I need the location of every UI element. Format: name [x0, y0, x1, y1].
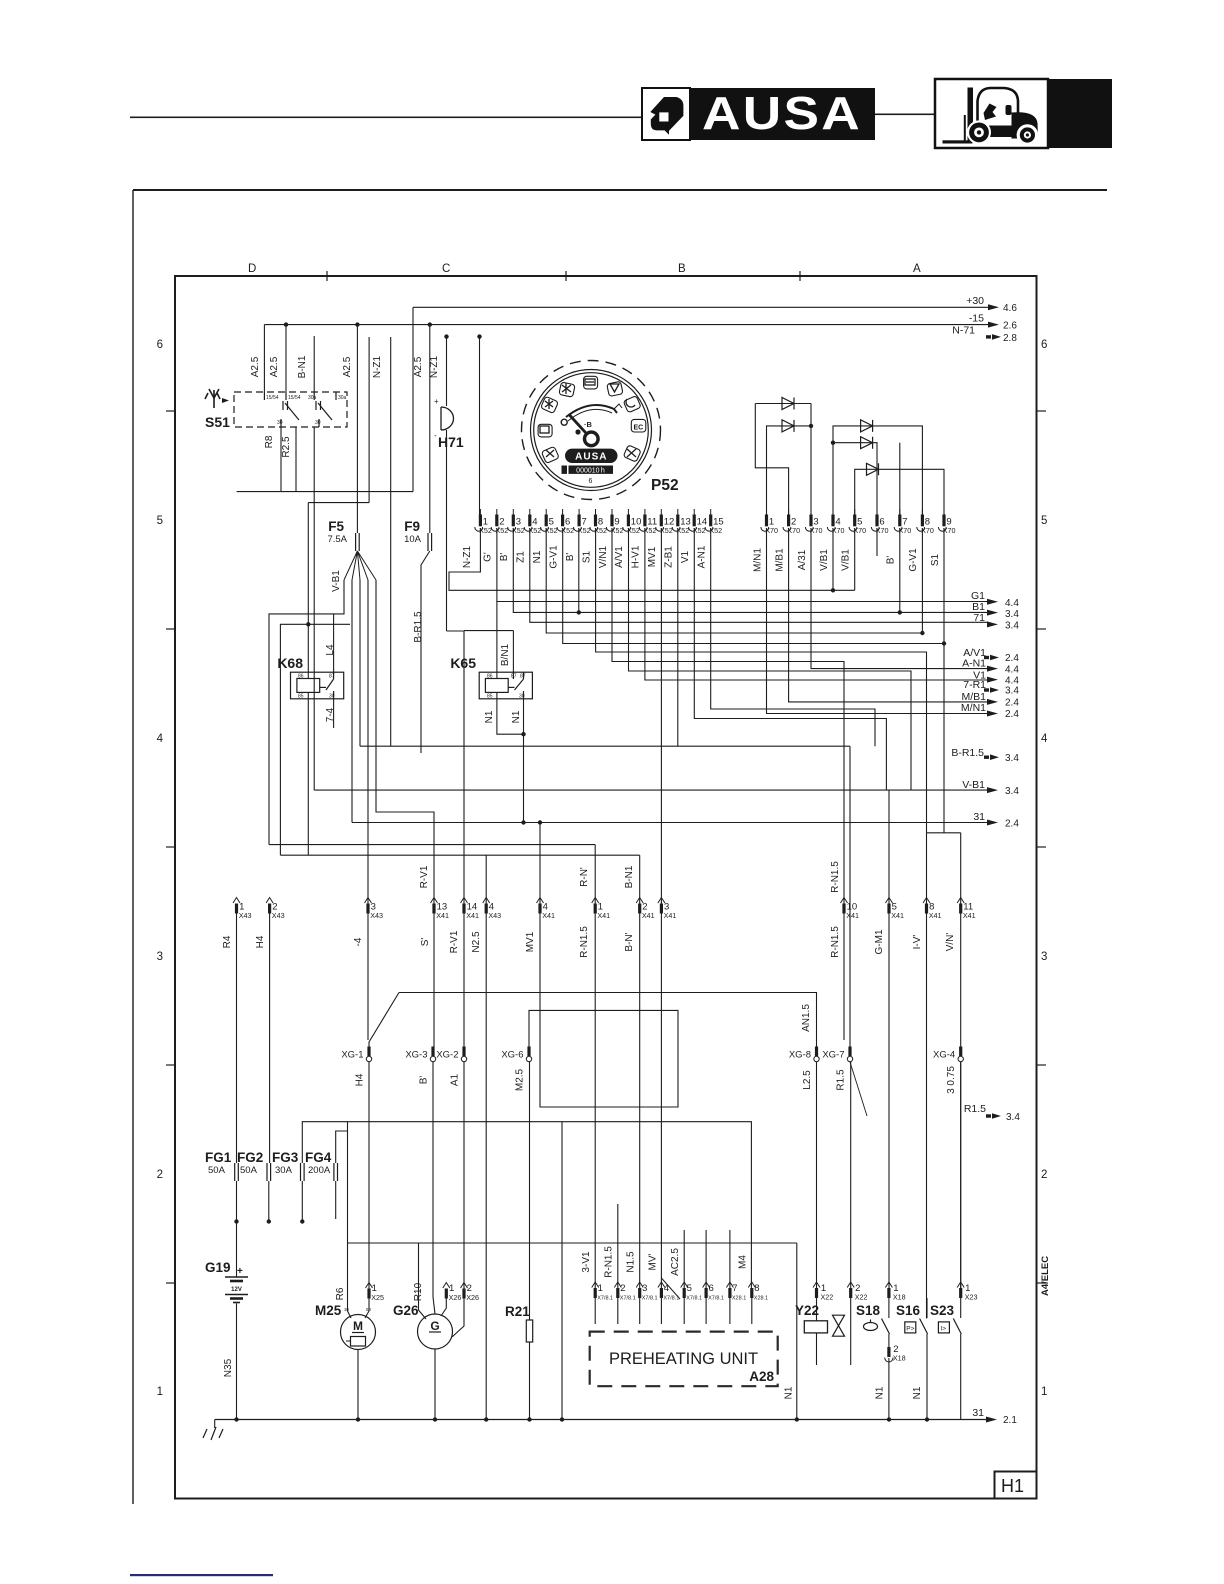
svg-text:X41: X41 — [597, 911, 610, 920]
svg-text:N-Z1: N-Z1 — [462, 545, 473, 568]
X52 pin 2 — [496, 509, 498, 515]
X41 pin 10 — [841, 898, 848, 904]
svg-text:FG2: FG2 — [237, 1150, 263, 1165]
svg-text:5: 5 — [687, 1283, 692, 1294]
svg-text:4: 4 — [1041, 733, 1048, 745]
wire G-V1 from X52-6 — [563, 528, 944, 644]
svg-text:S16: S16 — [896, 1303, 921, 1318]
svg-text:10A: 10A — [404, 534, 422, 545]
X41 pin 8 — [923, 898, 930, 904]
relay K68 — [291, 672, 344, 699]
svg-text:B-N1: B-N1 — [297, 355, 308, 378]
wire D4 — [833, 443, 877, 517]
svg-text:2.4: 2.4 — [1005, 653, 1019, 664]
svg-text:2.1: 2.1 — [1003, 1415, 1017, 1426]
wire to A28-4 — [660, 914, 662, 1289]
node 31 b — [538, 820, 542, 824]
wire K65 85 down — [497, 692, 524, 734]
wire X70-9 drop — [943, 528, 945, 833]
svg-text:X25: X25 — [371, 1293, 384, 1302]
wire X70-8 drop — [921, 528, 923, 633]
svg-text:R8: R8 — [264, 435, 275, 448]
svg-text:M/B1: M/B1 — [774, 548, 785, 572]
svg-text:87: 87 — [511, 674, 517, 680]
svg-text:B-R1.5: B-R1.5 — [413, 611, 424, 643]
svg-text:MV': MV' — [648, 1253, 659, 1270]
wire X43-4 feed — [485, 855, 487, 904]
svg-text:2.4: 2.4 — [1005, 709, 1019, 720]
X70 pin 6 — [876, 509, 878, 515]
svg-text:2: 2 — [1041, 1169, 1047, 1181]
connector X22 pin 2 — [847, 1282, 854, 1288]
svg-text:A2.5: A2.5 — [413, 356, 424, 377]
svg-text:X52: X52 — [611, 526, 624, 535]
X70 pin 7 — [899, 509, 901, 515]
inner frame — [175, 276, 1037, 1499]
svg-text:P52: P52 — [651, 477, 679, 494]
svg-text:N1: N1 — [532, 550, 543, 563]
right side net arrows — [951, 590, 1019, 830]
fuse F5 — [344, 533, 376, 580]
diode V2 — [782, 420, 794, 432]
svg-text:A2.5: A2.5 — [269, 356, 280, 377]
wire 746 line — [360, 745, 850, 747]
wire V-B1 line — [314, 789, 988, 791]
svg-text:X18: X18 — [893, 1293, 906, 1302]
svg-text:A2.5: A2.5 — [250, 356, 261, 377]
svg-text:X26: X26 — [449, 1293, 462, 1302]
svg-text:V/N1: V/N1 — [598, 545, 609, 568]
svg-text:X28.1: X28.1 — [732, 1296, 746, 1302]
svg-text:2: 2 — [620, 1283, 625, 1294]
S16 contact — [926, 1298, 928, 1318]
svg-text:4.4: 4.4 — [1005, 598, 1019, 609]
svg-text:XG-6: XG-6 — [501, 1050, 523, 1061]
svg-text:I>: I> — [940, 1326, 946, 1333]
wire M25 left diag — [348, 1311, 352, 1318]
A28 pin 5 — [681, 1282, 688, 1288]
Y22 valve symbol — [833, 1315, 845, 1336]
svg-text:X43: X43 — [239, 911, 252, 920]
svg-text:X70: X70 — [899, 526, 912, 535]
svg-text:4: 4 — [157, 733, 164, 745]
svg-text:B': B' — [565, 553, 576, 562]
svg-text:S18: S18 — [856, 1303, 881, 1318]
svg-text:FG3: FG3 — [272, 1150, 299, 1165]
svg-text:5: 5 — [157, 515, 163, 527]
node H71 feed dot — [444, 334, 448, 338]
node X70-4 junction — [831, 588, 835, 592]
svg-text:M/N1: M/N1 — [752, 548, 763, 572]
A28 pin 8 — [748, 1282, 755, 1288]
svg-text:R1.5: R1.5 — [964, 1103, 986, 1115]
svg-text:3 0.75: 3 0.75 — [946, 1066, 957, 1094]
X52 pin 1 — [479, 509, 481, 515]
node X52-1 feed dot — [477, 334, 481, 338]
wire XG-8 down to X22-1 — [816, 1062, 818, 1288]
A28 pin 3 — [636, 1282, 643, 1288]
wire V1 from X52-14 — [694, 528, 886, 790]
svg-text:B-N1: B-N1 — [624, 865, 635, 888]
svg-text:R-N1.5: R-N1.5 — [604, 1246, 615, 1278]
svg-text:+: + — [434, 397, 439, 406]
wire to S16 — [926, 914, 928, 1319]
connector XG-3 — [431, 1047, 434, 1057]
row ticks left — [166, 410, 176, 412]
connector X23 pin 1 — [957, 1282, 964, 1288]
svg-text:30: 30 — [329, 694, 335, 700]
svg-text:X22: X22 — [821, 1293, 834, 1302]
X41 pin 1 — [592, 898, 599, 904]
svg-text:-4: -4 — [353, 937, 364, 946]
svg-text:200A: 200A — [308, 1165, 331, 1176]
wire FG4 jog — [336, 1131, 348, 1163]
svg-text:3: 3 — [1041, 951, 1047, 963]
wire Y22 below — [816, 1333, 818, 1365]
wire N1 from X52-5 — [546, 528, 922, 633]
svg-text:86: 86 — [487, 674, 493, 680]
wire N-Z1 X52-1 hook — [449, 528, 855, 590]
wire A2.5 S51 pin b — [285, 325, 287, 392]
svg-text:G-V1: G-V1 — [908, 548, 919, 572]
svg-text:H-V1: H-V1 — [631, 545, 642, 568]
svg-text:R-V1: R-V1 — [449, 930, 460, 953]
connector X18 pin 2 — [888, 1334, 890, 1347]
svg-text:3.4: 3.4 — [1005, 686, 1019, 697]
svg-text:H1: H1 — [1001, 1476, 1024, 1496]
X52 pin 10 — [627, 509, 629, 515]
X70 pin 8 — [921, 509, 923, 515]
X70 pin 4 — [832, 509, 834, 515]
svg-text:X52: X52 — [545, 526, 558, 535]
svg-text:85: 85 — [298, 694, 304, 700]
svg-text:M4: M4 — [738, 1255, 749, 1269]
svg-text:R4: R4 — [222, 935, 233, 948]
wire 624 route — [280, 624, 350, 855]
svg-text:85: 85 — [487, 694, 493, 700]
X43 pin 2 — [266, 898, 273, 904]
svg-text:30: 30 — [519, 694, 525, 700]
svg-text:PREHEATING UNIT: PREHEATING UNIT — [609, 1350, 758, 1368]
wire A28-7 feed — [729, 1230, 731, 1288]
svg-text:AN1.5: AN1.5 — [801, 1004, 812, 1032]
svg-text:XG-2: XG-2 — [436, 1050, 458, 1061]
X41 pin 11 — [957, 898, 964, 904]
svg-text:X70: X70 — [787, 526, 800, 535]
svg-text:N1: N1 — [875, 1386, 886, 1399]
svg-text:B/N1: B/N1 — [500, 643, 511, 666]
svg-text:G-V1: G-V1 — [548, 545, 559, 569]
svg-text:X41: X41 — [963, 911, 976, 920]
X70 pin 5 — [854, 509, 856, 515]
svg-text:1: 1 — [598, 1283, 603, 1294]
S18 sensor glyph — [864, 1323, 878, 1331]
diode block above X70 — [755, 404, 944, 517]
svg-text:2.8: 2.8 — [1003, 333, 1017, 344]
fuse FG3 — [301, 1163, 305, 1181]
svg-text:M: M — [353, 1319, 363, 1333]
wire K68 30 down — [333, 699, 335, 728]
svg-text:X43: X43 — [272, 911, 285, 920]
svg-text:X41: X41 — [542, 911, 555, 920]
svg-text:H4: H4 — [255, 935, 266, 948]
svg-text:X52: X52 — [512, 526, 525, 535]
X52 pin 13 — [677, 509, 679, 515]
svg-text:B': B' — [886, 556, 897, 565]
ground symbol — [214, 1420, 216, 1429]
svg-text:K65: K65 — [450, 655, 476, 671]
svg-text:AUSA: AUSA — [575, 452, 607, 463]
svg-text:MV1: MV1 — [647, 546, 658, 567]
svg-text:R-N': R-N' — [579, 867, 590, 887]
svg-text:V1: V1 — [680, 550, 691, 563]
forklift icon box — [935, 79, 1048, 148]
svg-text:7.5A: 7.5A — [327, 534, 347, 545]
svg-text:3.4: 3.4 — [1005, 609, 1019, 620]
wire XG-7 spur — [850, 1062, 867, 1116]
svg-text:12V: 12V — [231, 1287, 242, 1293]
svg-text:6: 6 — [157, 339, 163, 351]
wire A2.5 to F5 — [356, 325, 358, 533]
svg-text:X7/8.1: X7/8.1 — [597, 1296, 613, 1302]
svg-text:A: A — [913, 263, 921, 275]
svg-text:8: 8 — [754, 1283, 759, 1294]
connector X25 pin 1 — [366, 1283, 373, 1289]
wire A28-5 feed — [683, 1230, 685, 1288]
svg-text:3: 3 — [642, 1283, 647, 1294]
wire XG-3 down to G26 — [433, 1062, 435, 1314]
wire X22-2 down — [850, 1298, 852, 1365]
svg-text:2: 2 — [157, 1169, 163, 1181]
svg-text:X70: X70 — [832, 526, 845, 535]
svg-text:A/V1: A/V1 — [614, 546, 625, 568]
A28 pin 2 — [614, 1282, 621, 1288]
wire K68 87 route — [269, 580, 344, 845]
wire FG3 below — [301, 1181, 303, 1222]
X52 pin 15 — [710, 509, 712, 515]
fuse FG1 — [235, 1163, 239, 1181]
svg-text:A4/ELEC: A4/ELEC — [1040, 1256, 1051, 1296]
svg-text:G26: G26 — [393, 1303, 419, 1318]
svg-text:1: 1 — [1041, 1386, 1047, 1398]
connector XG-6 — [527, 1047, 530, 1057]
svg-text:M25: M25 — [315, 1303, 342, 1318]
X52 pin 6 — [562, 509, 564, 515]
wire FG4 below — [335, 1181, 337, 1219]
wire below H71 — [446, 430, 448, 631]
wire A2.5 to F9 — [429, 325, 431, 533]
diode V1 — [782, 398, 794, 410]
wire X41-14 feed — [463, 631, 465, 904]
A28 pin 4 — [658, 1282, 665, 1288]
X70 pin 9 — [943, 509, 945, 515]
X41 pin 14 — [461, 898, 468, 904]
svg-text:-: - — [434, 431, 437, 440]
svg-text:I-V': I-V' — [912, 935, 923, 950]
svg-text:X41: X41 — [846, 911, 859, 920]
svg-text:3.4: 3.4 — [1005, 621, 1019, 632]
svg-text:3: 3 — [157, 951, 163, 963]
wire left drop — [755, 404, 788, 517]
svg-text:A/31: A/31 — [797, 549, 808, 570]
column ticks — [326, 271, 328, 281]
svg-text:X18: X18 — [893, 1354, 906, 1363]
svg-text:B-N': B-N' — [624, 932, 635, 951]
preheating unit A28 box — [590, 1332, 778, 1387]
wire X26-2 to G26 — [452, 1299, 464, 1338]
wire K65 top line — [464, 630, 513, 632]
svg-text:A1: A1 — [450, 1073, 461, 1086]
svg-text:A2.5: A2.5 — [342, 356, 353, 377]
wire X41-4 feed — [539, 823, 541, 905]
svg-text:V/N': V/N' — [945, 933, 956, 952]
svg-text:30a: 30a — [338, 395, 347, 401]
connector X26 pin 2 — [461, 1283, 468, 1289]
wire S1 from X52-8 — [596, 528, 927, 833]
svg-text:1: 1 — [157, 1386, 163, 1398]
svg-text:4.6: 4.6 — [1003, 303, 1017, 314]
AUSA pill — [565, 449, 618, 463]
svg-text:N1.5: N1.5 — [626, 1251, 637, 1273]
wire N-Z1 long — [390, 337, 392, 746]
svg-text:L4: L4 — [325, 644, 336, 656]
wire +30 drop — [412, 307, 414, 491]
node 31 a — [521, 820, 525, 824]
node B1 b — [898, 610, 902, 614]
wire H4 to FG2 — [269, 914, 271, 1164]
wire A-N1 from X52-15 — [711, 528, 875, 746]
diode V5 — [867, 463, 879, 475]
svg-text:4: 4 — [664, 1283, 669, 1294]
svg-text:7: 7 — [732, 1283, 737, 1294]
wire to A28-3 — [639, 914, 641, 1289]
wire X70-3 up — [810, 404, 812, 517]
svg-text:R-V1: R-V1 — [419, 865, 430, 888]
wire X70-5 drop — [854, 528, 856, 590]
svg-text:R1.5: R1.5 — [836, 1069, 847, 1091]
svg-text:X52: X52 — [677, 526, 690, 535]
svg-text:C: C — [442, 263, 450, 275]
wire to X23 — [960, 1062, 962, 1288]
wire 31 line — [352, 822, 988, 824]
svg-text:N1: N1 — [784, 1386, 795, 1399]
svg-text:X52: X52 — [529, 526, 542, 535]
svg-text:B: B — [678, 263, 686, 275]
svg-text:X43: X43 — [370, 911, 383, 920]
wire G1 from X52-2 — [497, 528, 988, 602]
wire -4 down — [367, 914, 369, 1041]
wire H-V1 from X52-11 — [645, 528, 988, 680]
svg-text:30a: 30a — [308, 395, 317, 401]
wire fan4 X43-3 — [367, 580, 369, 904]
svg-text:X7/8.1: X7/8.1 — [686, 1296, 702, 1302]
wire X70-7 drop — [899, 528, 901, 612]
svg-text:X26: X26 — [466, 1293, 479, 1302]
svg-text:AUSA: AUSA — [702, 87, 862, 139]
wire FG1 below — [236, 1181, 238, 1277]
wire X70-6 stub — [876, 528, 878, 556]
switch S51 — [234, 392, 347, 427]
svg-text:000010 h: 000010 h — [576, 467, 605, 474]
wire K65 86 up — [496, 602, 498, 679]
connector X70 — [761, 509, 956, 535]
relay K65 — [479, 672, 532, 699]
outer border top — [133, 189, 1107, 191]
wire 1243 line — [348, 1242, 797, 1244]
svg-text:B': B' — [499, 553, 510, 562]
svg-text:X43: X43 — [488, 911, 501, 920]
node K65 join — [521, 732, 525, 736]
instrument cluster P52 — [522, 361, 661, 500]
svg-text:N1: N1 — [484, 710, 495, 723]
net R1.5 arrow — [964, 1103, 1021, 1123]
svg-text:Z1: Z1 — [516, 551, 527, 563]
wire K65 30 down — [523, 699, 525, 823]
wire stub to 502 line — [368, 337, 370, 503]
svg-text:R-N1.5: R-N1.5 — [579, 926, 590, 958]
header rule middle — [874, 114, 935, 116]
svg-text:H71: H71 — [438, 434, 464, 450]
svg-text:X70: X70 — [876, 526, 889, 535]
svg-text:A-N1: A-N1 — [697, 545, 708, 568]
header rule left — [130, 117, 642, 119]
X52 pin 12 — [660, 509, 662, 515]
wire V/N1 from X52-9 — [612, 528, 844, 904]
row ticks right — [1036, 410, 1046, 412]
wire X70-4 D3 — [833, 426, 922, 517]
svg-text:F5: F5 — [328, 519, 344, 534]
svg-text:G: G — [430, 1319, 439, 1333]
X52 pin 14 — [693, 509, 695, 515]
key symbol S51 — [205, 389, 220, 408]
svg-text:+30: +30 — [966, 295, 984, 307]
svg-text:2.6: 2.6 — [1003, 321, 1017, 332]
svg-text:L2.5: L2.5 — [802, 1070, 813, 1090]
svg-text:·B: ·B — [584, 420, 592, 429]
wire M25 left feed — [347, 1122, 349, 1311]
connector X52 — [475, 509, 724, 535]
connector XG-4 — [959, 1047, 962, 1057]
wire S23 to bus — [960, 1334, 962, 1420]
svg-text:X28.1: X28.1 — [754, 1296, 768, 1302]
svg-text:N35: N35 — [223, 1358, 234, 1377]
needle — [570, 415, 588, 434]
svg-text:30: 30 — [277, 420, 283, 426]
wire MV1 X52-12 drop — [660, 528, 662, 904]
X43 pin 4 — [483, 898, 490, 904]
wire M/B1 from X70-2 — [789, 528, 988, 702]
wire XG-7 down to X22-2 — [850, 1062, 852, 1288]
wire 844 line — [269, 844, 595, 846]
wire S51 R2.5 — [295, 427, 297, 492]
X52 pin 3 — [512, 509, 514, 515]
svg-text:V/B1: V/B1 — [841, 549, 852, 571]
X52 pin 8 — [595, 509, 597, 515]
connector XG-2 — [462, 1047, 465, 1057]
svg-text:3-V1: 3-V1 — [581, 1251, 592, 1273]
wire X70-3 drop — [811, 528, 988, 669]
svg-text:K68: K68 — [277, 655, 303, 671]
svg-text:X70: X70 — [943, 526, 956, 535]
A28 pin 7 — [726, 1282, 733, 1288]
AUSA logo a-glyph box — [642, 88, 690, 140]
X52 pin 4 — [529, 509, 531, 515]
svg-text:A-N1: A-N1 — [962, 658, 986, 670]
wire A28-4 diag — [661, 1278, 680, 1299]
X52 pin 5 — [545, 509, 547, 515]
svg-text:X70: X70 — [810, 526, 823, 535]
svg-text:FG1: FG1 — [205, 1150, 232, 1165]
